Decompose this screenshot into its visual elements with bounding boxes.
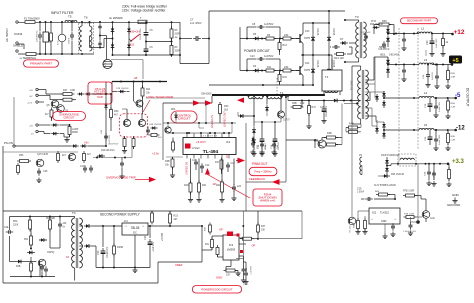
svg-text:C2E: C2E xyxy=(4,227,9,229)
label red latch box xyxy=(88,82,112,104)
transistor Q7 xyxy=(136,100,143,107)
svg-text:T5: T5 xyxy=(68,15,72,19)
capacitor C15 xyxy=(146,127,150,135)
svg-text:PS-ON: PS-ON xyxy=(4,141,13,145)
svg-text:C4B 220nF: C4B 220nF xyxy=(378,49,390,51)
svg-text:C5707: C5707 xyxy=(283,120,290,122)
svg-text:ZD1: ZD1 xyxy=(171,108,176,111)
IC 78L05 box xyxy=(122,223,148,235)
wire mid left vertical xyxy=(13,97,15,146)
svg-text:CIRCUIT: CIRCUIT xyxy=(64,115,75,119)
svg-text:FR155: FR155 xyxy=(332,28,335,36)
ground sb xyxy=(132,268,137,273)
resistor R13 xyxy=(334,53,346,56)
resistor R26 xyxy=(132,136,135,149)
svg-text:POWERGOOD CIRCUIT: POWERGOOD CIRCUIT xyxy=(201,287,233,291)
svg-text:+B: +B xyxy=(134,76,138,80)
wire stage2 mid xyxy=(240,70,299,72)
svg-text:1u0uF/16V: 1u0uF/16V xyxy=(439,101,441,112)
wire sec drops xyxy=(374,92,376,98)
svg-text:+3.3: +3.3 xyxy=(452,159,465,165)
svg-text:C3D: C3D xyxy=(357,189,362,191)
diode D1B xyxy=(265,105,269,113)
svg-text:R5B: R5B xyxy=(451,73,456,75)
svg-text:R21: R21 xyxy=(202,184,207,187)
resistor R4B xyxy=(346,126,360,129)
wire top rail to caps xyxy=(113,21,181,23)
resistor R3 200R xyxy=(170,43,173,57)
dashed verticals magamp xyxy=(398,28,400,164)
svg-text:R27: R27 xyxy=(63,89,68,92)
wire pwm out xyxy=(236,160,238,162)
capacitor C9 xyxy=(332,45,340,49)
svg-text:C9? 1u3F: C9? 1u3F xyxy=(361,32,371,34)
svg-text:Freq ≈ 30KHz: Freq ≈ 30KHz xyxy=(254,169,272,173)
wire snubber xyxy=(374,24,379,26)
diode D2B xyxy=(16,260,24,264)
resistor R18 xyxy=(171,157,174,170)
capacitor C2B out xyxy=(426,72,430,80)
diode D1 xyxy=(111,27,115,35)
resistor R31 xyxy=(50,108,53,120)
capacitor C1 xyxy=(38,32,42,40)
resistor RT9 xyxy=(403,194,417,197)
red square small b xyxy=(237,234,240,237)
wire 3v3 rail xyxy=(391,163,448,165)
wire T3 bottom xyxy=(358,58,360,62)
svg-text:C1B: C1B xyxy=(239,272,241,277)
film capacitor C2 xyxy=(43,32,48,42)
capacitor C91 xyxy=(402,67,406,75)
diode D3 xyxy=(127,27,131,35)
resistor R63 xyxy=(448,167,451,181)
wire thick primary bus xyxy=(212,94,324,96)
diode D4 xyxy=(127,43,131,51)
transistor Q1 xyxy=(299,34,301,43)
svg-text:IC3: IC3 xyxy=(229,243,234,247)
svg-text:16: 16 xyxy=(66,255,70,259)
svg-text:LM393: LM393 xyxy=(227,248,236,252)
wire second supply top border xyxy=(3,210,302,212)
resistor R37 xyxy=(257,223,260,235)
diode FR105 b xyxy=(311,66,315,75)
ground 3v3 a xyxy=(426,181,431,186)
resistor R68 xyxy=(376,193,390,196)
red arrow PWM xyxy=(238,158,246,164)
resistor R30 xyxy=(110,107,113,120)
svg-text:1uF/50V: 1uF/50V xyxy=(264,23,274,26)
capacitor C11 xyxy=(194,159,198,167)
wire stage1 mid xyxy=(240,38,299,40)
svg-text:L2: L2 xyxy=(421,27,425,31)
varistor Z1 xyxy=(58,34,66,42)
wire HV return xyxy=(209,54,240,56)
ground C1B xyxy=(259,151,264,156)
wire stage2 collector rail xyxy=(301,54,332,56)
ground R25 xyxy=(122,148,127,153)
wire lamp net xyxy=(63,134,65,137)
red feedback triangle xyxy=(205,168,210,175)
terminal +12V c xyxy=(36,101,38,103)
resistor R20 xyxy=(189,181,192,195)
fuse F1 xyxy=(25,21,35,24)
terminal -12 xyxy=(454,129,457,132)
diode D7B xyxy=(118,90,126,93)
svg-text:C13: C13 xyxy=(80,165,85,168)
svg-text:4 Vref: 4 Vref xyxy=(192,146,200,150)
svg-text:T6: T6 xyxy=(84,16,88,20)
resistor R3C col xyxy=(364,218,367,231)
caps row right of TL494 xyxy=(251,140,255,148)
resistor R51 xyxy=(30,234,33,248)
label PIN4 box xyxy=(253,189,282,206)
svg-text:CIRCUIT: CIRCUIT xyxy=(178,117,190,121)
svg-text:C26: C26 xyxy=(43,170,48,173)
resistor R57 xyxy=(83,151,86,163)
svg-text:115v: Voltage doubler rectifie: 115v: Voltage doubler rectifier xyxy=(122,9,166,13)
svg-text:1uF/50V: 1uF/50V xyxy=(264,55,274,58)
capacitor C24 xyxy=(148,239,153,248)
red diagonal to pin4 box xyxy=(208,175,251,199)
terminal link box xyxy=(26,53,36,56)
svg-text:-5V: -5V xyxy=(29,96,33,98)
svg-text:R4B: R4B xyxy=(292,102,297,105)
capacitor C41 xyxy=(434,136,438,144)
capacitor C23 xyxy=(101,248,106,257)
resistor R9 xyxy=(264,37,277,40)
grounds left col xyxy=(355,229,360,234)
ground lamp xyxy=(64,137,69,142)
svg-text:+5 OUT: +5 OUT xyxy=(196,140,206,144)
wire sec common vertical xyxy=(374,57,376,92)
resistor R23 xyxy=(151,211,154,225)
svg-text:3k3: 3k3 xyxy=(224,109,229,112)
svg-text:R17: R17 xyxy=(215,161,220,164)
capacitor C17 xyxy=(226,162,230,170)
svg-text:+5: +5 xyxy=(452,58,458,64)
transformer T3 xyxy=(356,22,367,58)
wire vref xyxy=(158,261,202,263)
wire +5 out xyxy=(432,64,452,66)
transistor Q9 xyxy=(348,217,356,225)
svg-text:GND: GND xyxy=(381,220,387,223)
svg-text:FR105: FR105 xyxy=(316,60,319,68)
dual diode +5 xyxy=(386,58,390,66)
wire ctrl bus a xyxy=(163,122,236,124)
resistor R54 xyxy=(30,261,33,274)
capacitor C1B xyxy=(260,136,265,145)
resistor R23B xyxy=(113,244,116,257)
svg-text:FR105: FR105 xyxy=(316,28,319,36)
capacitor C6 xyxy=(144,46,149,55)
red arrow bus left xyxy=(237,98,244,103)
diode D6 xyxy=(253,69,261,73)
diode D93 xyxy=(382,174,390,178)
svg-text:PH3: PH3 xyxy=(371,20,376,23)
diode D88 xyxy=(150,126,157,129)
wire half bridge mid xyxy=(331,55,333,70)
resistor R50 xyxy=(17,163,20,175)
svg-text:R20: R20 xyxy=(184,184,189,187)
svg-text:D4B 1N4148: D4B 1N4148 xyxy=(149,124,162,126)
svg-text:78L05: 78L05 xyxy=(131,226,140,230)
svg-text:CN8: CN8 xyxy=(70,89,75,92)
svg-text:3300uF/200v: 3300uF/200v xyxy=(140,28,142,40)
wire pg to out xyxy=(258,238,302,240)
terminal shield xyxy=(16,42,18,44)
label CONTROL CIRCUIT xyxy=(171,111,197,123)
svg-text:F1 T5A/250V: F1 T5A/250V xyxy=(24,17,40,21)
wire feedback horiz xyxy=(246,181,286,183)
svg-text:230=ON: 230=ON xyxy=(130,31,140,34)
svg-text:200R: 200R xyxy=(175,51,181,53)
svg-text:T4: T4 xyxy=(72,211,76,215)
svg-text:2.2R: 2.2R xyxy=(451,107,456,109)
transformer T4 xyxy=(72,218,83,268)
wire R4B net xyxy=(358,127,361,129)
ground symbol out xyxy=(452,198,457,203)
wire IC3 pins xyxy=(211,236,213,240)
svg-text:D90 1N4148: D90 1N4148 xyxy=(370,24,384,26)
resistor R24 xyxy=(141,86,144,99)
svg-text:LINREG IN: LINREG IN xyxy=(210,115,214,128)
resistor R59 xyxy=(442,36,445,48)
ground pg col cap xyxy=(243,279,248,284)
resistor R53 xyxy=(17,160,31,163)
resistor R41 xyxy=(211,237,214,250)
diode D2A xyxy=(252,127,256,135)
svg-text:LAMP: LAMP xyxy=(72,128,79,131)
terminal -5V b xyxy=(36,94,38,96)
capacitor C40 xyxy=(428,134,433,143)
wire pg col xyxy=(242,211,244,262)
resistor R27b xyxy=(240,237,254,240)
wire -12 out xyxy=(434,129,456,131)
svg-text:R5B: R5B xyxy=(451,136,456,138)
svg-text:R13: R13 xyxy=(283,44,288,47)
resistor R4C xyxy=(346,130,360,133)
resistor R44 xyxy=(209,223,212,235)
wire left frame xyxy=(2,146,4,283)
wire R30 net xyxy=(110,94,112,110)
svg-text:WHEN x=6: WHEN x=6 xyxy=(260,198,275,202)
svg-text:FEEDBACK: FEEDBACK xyxy=(249,177,265,181)
capacitor C18 xyxy=(244,270,248,278)
svg-text:GND: GND xyxy=(216,276,222,280)
svg-text:4x 1N5406: 4x 1N5406 xyxy=(109,16,123,20)
diode FR105 a xyxy=(311,34,315,43)
wire ov drop xyxy=(131,146,133,158)
svg-text:15K: 15K xyxy=(261,230,266,232)
svg-text:220nF/275v: 220nF/275v xyxy=(37,30,39,42)
wire T1 primary bottom xyxy=(360,119,362,124)
wire ltp top xyxy=(126,114,128,120)
transistor Q11 xyxy=(318,140,326,148)
svg-text:DC OUTPUT: DC OUTPUT xyxy=(466,88,470,107)
inductor L2 xyxy=(417,32,432,34)
ground R22 xyxy=(219,197,224,202)
svg-text:~L TERMINAL: ~L TERMINAL xyxy=(19,56,37,60)
ground C19 xyxy=(231,196,236,201)
resistor R7B xyxy=(404,216,417,219)
svg-text:SECONDARY PART: SECONDARY PART xyxy=(407,19,432,23)
wire doubler bottom xyxy=(113,54,181,56)
svg-text:C3B: C3B xyxy=(425,171,427,176)
label SECONDARY PART xyxy=(401,18,438,24)
label +5 badge xyxy=(449,56,462,64)
diode D90 xyxy=(373,26,380,29)
svg-text:R15: R15 xyxy=(283,76,288,79)
svg-text:GND: GND xyxy=(452,193,460,197)
svg-text:160R P10RF1940: 160R P10RF1940 xyxy=(381,155,400,157)
wire standby net xyxy=(49,229,51,240)
label PRIMARY PART xyxy=(24,60,59,67)
capacitor C36 xyxy=(427,169,431,177)
svg-text:4k7: 4k7 xyxy=(62,154,67,157)
svg-text:C30: C30 xyxy=(426,40,429,45)
svg-text:115: 115 xyxy=(130,44,135,47)
resistor R28 xyxy=(61,98,75,101)
svg-text:R47: R47 xyxy=(312,106,317,109)
wire ctrl bus b xyxy=(167,132,232,134)
dashed divider T2 xyxy=(276,78,278,94)
svg-text:R51: R51 xyxy=(24,239,29,241)
svg-text:100nF: 100nF xyxy=(69,37,71,44)
capacitor C13 xyxy=(83,165,87,173)
ground R21 xyxy=(196,197,201,202)
svg-text:R4L: R4L xyxy=(205,244,210,246)
resistor R17 xyxy=(220,158,223,172)
svg-text:100uF/10V: 100uF/10V xyxy=(326,105,328,117)
ground C25 xyxy=(321,118,326,123)
transistor Q2 xyxy=(299,66,301,75)
dual diode -5 xyxy=(382,91,386,99)
capacitor C4 Y2 xyxy=(98,40,101,47)
svg-text:+5v: +5v xyxy=(84,141,89,145)
svg-text:L5: L5 xyxy=(424,123,428,127)
svg-text:1u5F/16V: 1u5F/16V xyxy=(436,38,438,48)
svg-text:C23: C23 xyxy=(97,250,100,255)
diode D5 xyxy=(253,37,261,41)
transformer T2 drive coils xyxy=(249,97,263,99)
svg-text:C1A: C1A xyxy=(270,144,273,149)
wires bottom 3v3 xyxy=(357,211,359,221)
terminal N xyxy=(16,50,18,52)
svg-text:+7uF/16V: +7uF/16V xyxy=(153,242,155,252)
svg-text:CON4: CON4 xyxy=(14,32,23,36)
resistor R42 xyxy=(216,245,219,257)
red trip line xyxy=(135,179,150,181)
svg-text:220K: 220K xyxy=(13,225,19,227)
wire ctrl verticals xyxy=(167,123,169,133)
svg-text:3.3R: 3.3R xyxy=(451,77,456,79)
svg-text:C7: C7 xyxy=(190,18,194,22)
ground C27 xyxy=(434,84,439,89)
svg-text:D13: D13 xyxy=(305,30,310,33)
svg-text:R13 1k8: R13 1k8 xyxy=(334,56,344,60)
wire R18 net xyxy=(172,157,174,159)
svg-text:4k7: 4k7 xyxy=(114,114,119,117)
wire drive link xyxy=(163,102,212,104)
resistor R3B col xyxy=(357,218,360,231)
wire ov top xyxy=(38,89,46,91)
wire 5vsb rail xyxy=(92,225,160,227)
red arrow FEEDBACK xyxy=(272,179,280,185)
resistor R56 xyxy=(57,151,60,163)
label OVERVOLTAGE CIRCUIT xyxy=(53,112,86,121)
svg-text:NTC: NTC xyxy=(58,40,60,45)
wire +12 rail xyxy=(388,33,419,35)
capacitor C10 xyxy=(257,57,265,61)
wire -12 gnd row xyxy=(433,146,438,151)
capacitor C30 xyxy=(430,38,435,47)
svg-text:Q15 C945: Q15 C945 xyxy=(37,153,49,156)
svg-text:K5TB: K5TB xyxy=(304,37,310,40)
ground C2B xyxy=(425,82,430,87)
zener ZD2 inline xyxy=(104,103,107,110)
svg-text:C24: C24 xyxy=(144,235,147,240)
diode D19b xyxy=(84,244,92,248)
capacitor C7 xyxy=(193,36,201,41)
wire ov mid xyxy=(73,99,76,101)
resistor R10 xyxy=(281,37,294,40)
dual diode +12 xyxy=(386,27,390,35)
svg-text:223: 223 xyxy=(237,185,242,188)
wire stage1 collector rail xyxy=(303,22,329,24)
resistor R27 xyxy=(61,93,75,96)
svg-text:T1: T1 xyxy=(280,91,284,95)
svg-text:OP: OP xyxy=(252,244,256,248)
svg-text:+12: +12 xyxy=(454,29,465,36)
svg-text:22R: 22R xyxy=(284,34,289,37)
diode D22 xyxy=(71,144,79,147)
magamp dashed box xyxy=(398,154,416,166)
svg-text:LONG TAILED PAIR: LONG TAILED PAIR xyxy=(146,95,174,99)
IC U1 TL-494 box xyxy=(183,138,236,155)
svg-text:SB560: SB560 xyxy=(379,46,387,49)
svg-text:+2.5v: +2.5v xyxy=(152,152,160,156)
svg-text:1u0uF/16V: 1u0uF/16V xyxy=(439,134,441,145)
ground R20 xyxy=(188,197,193,202)
capacitor C19 xyxy=(232,184,236,192)
svg-text:200R: 200R xyxy=(175,34,181,36)
transistor Q6 xyxy=(57,105,65,113)
resistor R60 xyxy=(447,68,450,82)
svg-text:+5VSB: +5VSB xyxy=(160,233,164,241)
capacitor C2E xyxy=(6,230,14,234)
transistor Q12 xyxy=(38,259,46,267)
resistor R23C xyxy=(169,212,172,226)
capacitor C5D xyxy=(409,222,413,230)
label POWERGOOD CIRCUIT xyxy=(192,286,241,293)
wire pin drops xyxy=(186,133,188,134)
inductor L3 xyxy=(419,63,434,65)
resistor R35 12K xyxy=(224,269,238,272)
svg-text:22R: 22R xyxy=(284,66,289,69)
wire 5vsb to pg xyxy=(160,225,202,227)
svg-text:TL-494: TL-494 xyxy=(203,149,219,155)
svg-text:D2B: D2B xyxy=(16,266,21,268)
diode D17 xyxy=(85,92,92,95)
terminal L xyxy=(16,21,18,23)
ground R60 xyxy=(445,84,450,89)
svg-text:R4B: R4B xyxy=(327,132,332,135)
wire -12 rail xyxy=(384,129,419,131)
resistor R1 xyxy=(50,31,53,44)
wire snubber net xyxy=(287,95,289,101)
svg-text:PRIMARY PART: PRIMARY PART xyxy=(30,62,52,66)
svg-text:R37: R37 xyxy=(261,226,266,228)
